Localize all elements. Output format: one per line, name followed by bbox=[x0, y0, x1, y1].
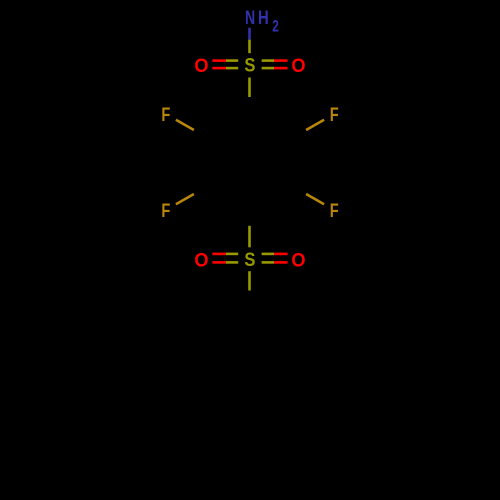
wire: bond C4-S2 (olive half, S side) bbox=[248, 226, 251, 248]
wire: bond S1-C1 (olive half, S side; C half invisible) bbox=[248, 78, 251, 98]
node F2 fluorine label (upper right) bbox=[330, 103, 339, 126]
node F1 fluorine label (upper left) bbox=[161, 103, 170, 126]
wire: double bond S2=O3 upper line, olive half bbox=[226, 253, 238, 256]
wire: double bond S2=O4 upper line, olive half bbox=[262, 253, 275, 256]
svg-text:F: F bbox=[161, 103, 170, 126]
wire: double bond S2=O3 lower line, olive half bbox=[226, 261, 238, 264]
svg-text:S: S bbox=[244, 54, 255, 76]
node O3 oxygen label (bottom left) bbox=[194, 250, 208, 272]
node H of NH2 (hydrogen label letter H) bbox=[258, 6, 269, 29]
wire: bond N-S1 (blue half, N side) bbox=[248, 28, 251, 40]
wire: double bond S2=O3 lower line, red half bbox=[212, 261, 225, 264]
wire: bond C3-F4 (goldenrod half, F side) bbox=[306, 194, 324, 204]
svg-text:S: S bbox=[244, 249, 255, 271]
wire: double bond S1=O1 lower line, olive half bbox=[226, 67, 238, 70]
wire: double bond S2=O4 upper line, red half bbox=[274, 253, 288, 256]
svg-text:H: H bbox=[258, 6, 269, 29]
node F3 fluorine label (lower left) bbox=[161, 199, 170, 222]
wire: double bond S1=O2 upper line, red half bbox=[274, 59, 288, 62]
wire: double bond S1=O1 upper line, red half bbox=[212, 59, 226, 62]
wire: double bond S1=O2 lower line, red half bbox=[274, 67, 288, 70]
node F4 fluorine label (lower right) bbox=[330, 199, 339, 222]
wire: bond N-S1 (olive half, S side) bbox=[248, 40, 251, 54]
wire: bond C2-F2 (goldenrod half, F side) bbox=[306, 120, 324, 130]
svg-text:F: F bbox=[330, 199, 339, 222]
node O2 oxygen label (top right) bbox=[291, 55, 305, 77]
wire: bond C6-F1 (goldenrod half, F side) bbox=[176, 120, 194, 130]
svg-text:N: N bbox=[245, 7, 255, 29]
wire: bond C5-F3 (goldenrod half, F side) bbox=[176, 194, 194, 204]
svg-text:2: 2 bbox=[272, 18, 279, 36]
node S1 sulfonamide sulfur label bbox=[244, 54, 255, 76]
wire: double bond S1=O2 lower line, olive half bbox=[262, 67, 274, 70]
wire: double bond S1=O1 upper line, olive half bbox=[226, 59, 238, 62]
wire: double bond S1=O2 upper line, olive half bbox=[262, 59, 274, 62]
wire: double bond S2=O3 upper line, red half bbox=[212, 253, 225, 256]
svg-text:F: F bbox=[161, 199, 170, 222]
node O4 oxygen label (bottom right) bbox=[291, 250, 305, 272]
node S2 methylsulfonyl sulfur label bbox=[244, 249, 255, 271]
wire: double bond S2=O4 lower line, red half bbox=[274, 261, 288, 264]
svg-text:F: F bbox=[330, 103, 339, 126]
svg-text:O: O bbox=[194, 55, 208, 77]
wire: double bond S2=O4 lower line, olive half bbox=[262, 261, 275, 264]
wire: bond S2-CH3 (olive half, S side; methyl half invisible) bbox=[248, 271, 251, 290]
node N of NH2 (amine nitrogen label letter N) bbox=[245, 7, 255, 29]
wire: double bond S1=O1 lower line, red half bbox=[212, 67, 226, 70]
svg-text:O: O bbox=[291, 55, 305, 77]
svg-text:O: O bbox=[291, 250, 305, 272]
node subscript 2 of NH2 bbox=[272, 18, 279, 36]
node O1 oxygen label (top left) bbox=[194, 55, 208, 77]
svg-text:O: O bbox=[194, 250, 208, 272]
